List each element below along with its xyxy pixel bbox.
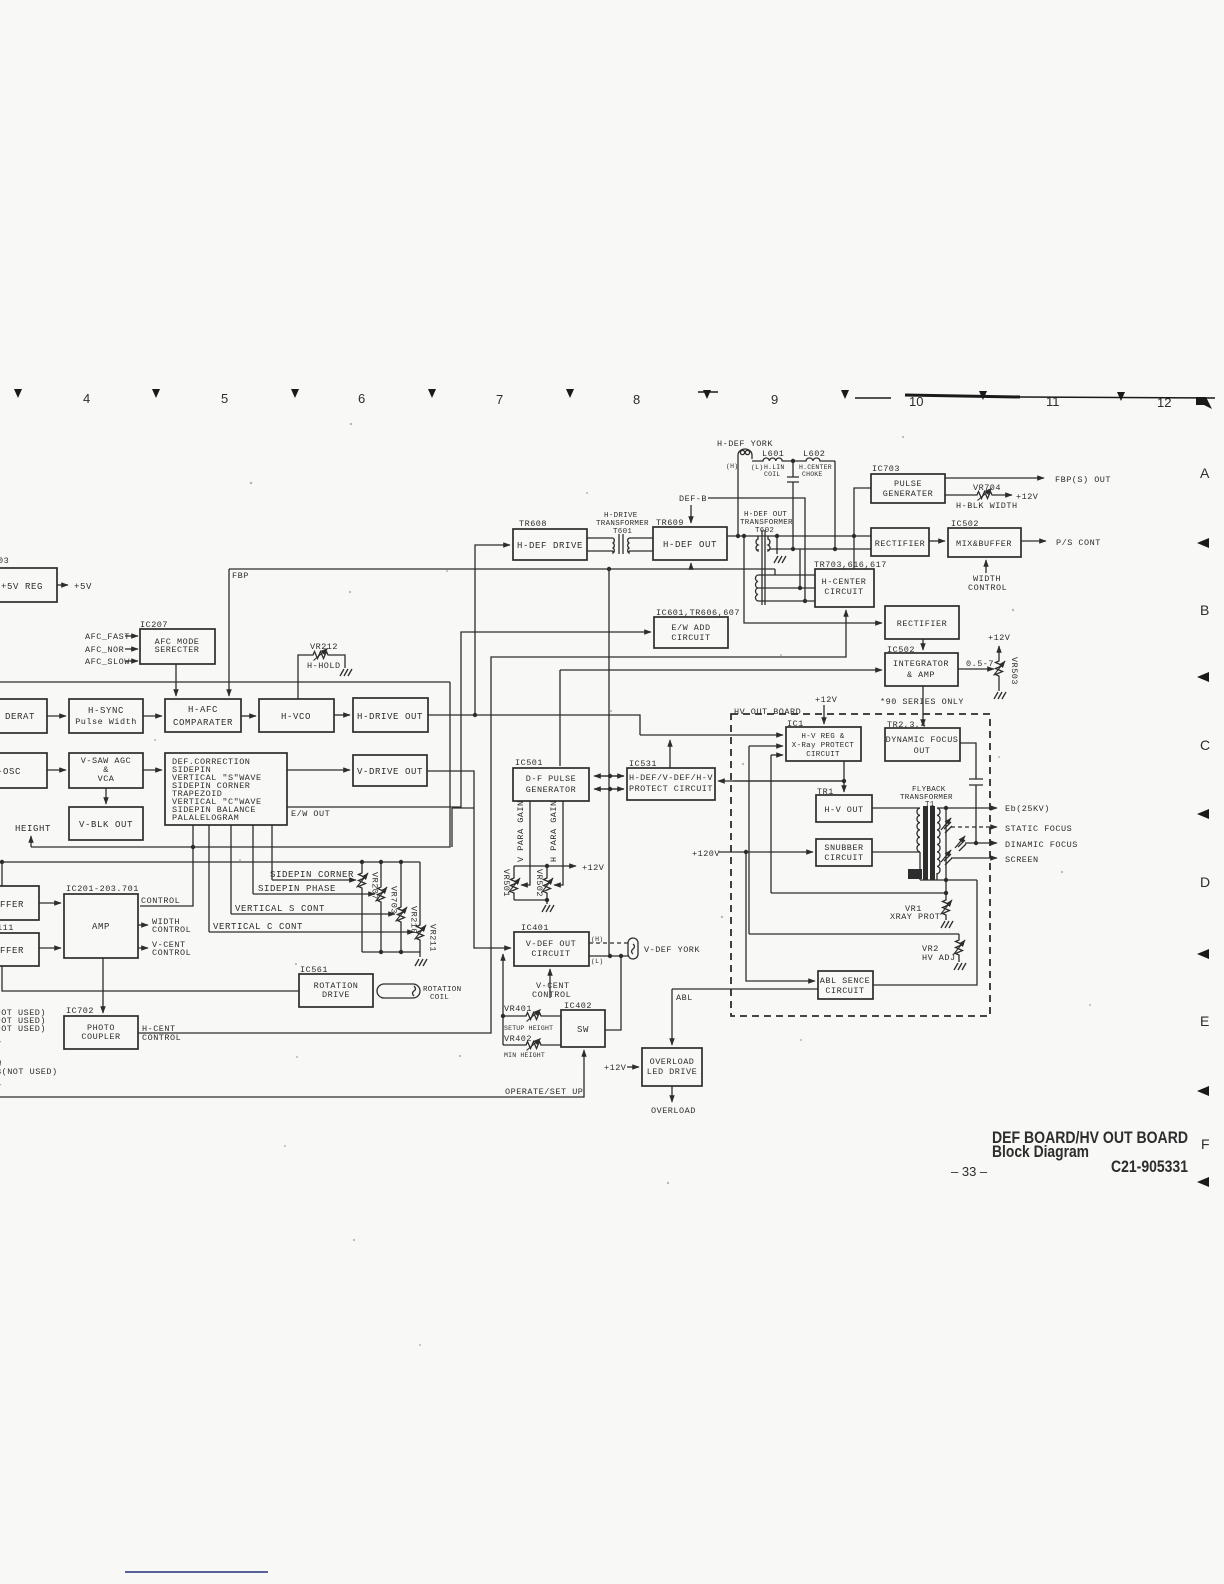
IC402 SW box	[561, 1001, 605, 1047]
box V-BLK OUT	[69, 807, 143, 840]
svg-text:H-V REG &: H-V REG &	[801, 733, 844, 741]
svg-text:VR704: VR704	[973, 483, 1001, 493]
node *90 SERIES ONLY	[880, 697, 964, 707]
node (H) output	[589, 936, 628, 943]
svg-text:Eb(25KV): Eb(25KV)	[1005, 804, 1050, 814]
svg-text:VERTICAL S CONT: VERTICAL S CONT	[235, 904, 325, 914]
svg-text:– 33 –: – 33 –	[951, 1164, 988, 1179]
node CONTROL at AMP output	[141, 896, 180, 906]
box RECTIFIER lower	[885, 606, 959, 639]
wire H-VCO to H-DRIVE OUT	[334, 714, 350, 716]
svg-text:TRANSFORMER: TRANSFORMER	[740, 519, 793, 527]
svg-text:V-DEF YORK: V-DEF YORK	[644, 945, 700, 955]
wire BUFFER1 to AMP	[39, 902, 61, 904]
wire H-DEF OUT to rectifier line A y536	[727, 534, 871, 538]
inductor rotation coil	[377, 984, 461, 1002]
svg-text:XRAY PROT: XRAY PROT	[890, 912, 940, 922]
IC201-203.701 AMP box	[64, 884, 139, 958]
svg-text:ABL: ABL	[676, 993, 693, 1003]
svg-text:H-DEF/V-DEF/H-V: H-DEF/V-DEF/H-V	[629, 773, 713, 783]
ground below VR1	[941, 921, 953, 928]
node WIDTH CONTROL into mix&buffer	[968, 560, 1007, 593]
svg-text:H-BLK WIDTH: H-BLK WIDTH	[956, 501, 1018, 511]
TR703,616,617 H-CENTER CIRCUIT box	[814, 560, 887, 607]
IC1 H-V REG & X-Ray PROTECT box	[786, 719, 861, 761]
svg-text:AMP: AMP	[92, 922, 110, 932]
wire top rail bus y862 to pot rail	[0, 860, 420, 886]
wire DEF drop to SIDEPIN CORNER	[271, 825, 273, 880]
svg-text:+5V: +5V	[74, 582, 92, 592]
node OVERLOAD output	[651, 1086, 696, 1116]
node +12V into overload	[604, 1063, 639, 1073]
svg-text:PULSE: PULSE	[894, 479, 922, 489]
svg-text:C: C	[1200, 737, 1210, 753]
node 0.5-7 output to VR503	[958, 659, 994, 669]
wire +5V output	[57, 582, 92, 592]
svg-text:ROTATION: ROTATION	[423, 986, 461, 994]
wire E/W OUT to E/W ADD circuit	[287, 632, 651, 819]
wire hv adj sense line	[749, 933, 959, 935]
box H-DRIVE OUT	[353, 698, 428, 732]
wire V-DRIVE OUT to V-DEF OUT circuit	[427, 771, 511, 948]
svg-text:V-BLK OUT: V-BLK OUT	[79, 820, 133, 830]
svg-text:B(NOT USED): B(NOT USED)	[0, 1067, 58, 1077]
wire DEF drop to AMP control net	[140, 825, 195, 906]
resistor static focus tap	[941, 818, 952, 833]
svg-text:P/S CONT: P/S CONT	[1056, 538, 1101, 548]
svg-text:FLYBACK: FLYBACK	[912, 786, 946, 794]
svg-text:CONTROL: CONTROL	[152, 948, 191, 958]
node (NOT USED) stubs at left	[0, 1008, 58, 1093]
wire H-SYNC to H-AFC	[143, 715, 162, 717]
svg-text:+12V: +12V	[582, 863, 605, 873]
svg-text:H-AFC: H-AFC	[188, 705, 218, 715]
svg-text:CHOKE: CHOKE	[802, 471, 823, 478]
svg-text:5: 5	[221, 391, 228, 406]
svg-text:SW: SW	[577, 1025, 589, 1035]
wire V-SAW down to V-BLK OUT	[105, 788, 107, 804]
svg-text:HV OUT BOARD: HV OUT BOARD	[734, 707, 801, 717]
svg-text:IC501: IC501	[515, 758, 543, 768]
svg-text:COMPARATER: COMPARATER	[173, 718, 233, 728]
svg-text:03: 03	[0, 556, 9, 566]
svg-text:E: E	[1200, 1013, 1209, 1029]
svg-text:SCREEN: SCREEN	[1005, 855, 1039, 865]
svg-text:DRIVE: DRIVE	[322, 990, 350, 1000]
IC502 MIX&BUFFER box	[948, 519, 1021, 557]
node AFC_NOR	[85, 645, 138, 655]
ground below VR501/VR502	[542, 905, 554, 912]
ground near T602	[774, 556, 786, 563]
wire rectifier2 to integrator	[922, 639, 924, 650]
svg-text:CIRCUIT: CIRCUIT	[531, 949, 570, 959]
svg-text:H.LIN: H.LIN	[764, 464, 785, 471]
svg-text:VERTICAL C CONT: VERTICAL C CONT	[213, 922, 303, 932]
svg-text:H-CENTER: H-CENTER	[822, 577, 867, 587]
svg-text:VR210: VR210	[409, 906, 419, 934]
svg-text:Block Diagram: Block Diagram	[992, 1142, 1089, 1161]
wire feedback loop right side and bottom	[31, 682, 474, 847]
wire BUFFER2 to AMP	[39, 947, 61, 949]
svg-text:HEIGHT: HEIGHT	[15, 824, 51, 834]
wire x854 vertical pulse gen feed	[854, 488, 871, 569]
box V-SAW AGC & VCA	[69, 753, 143, 788]
svg-text:RECTIFIER: RECTIFIER	[897, 619, 947, 629]
wire ABL sence to transformer return	[873, 880, 977, 985]
svg-text:(NOT USED): (NOT USED)	[0, 1024, 46, 1034]
svg-text:H-HOLD: H-HOLD	[307, 661, 341, 671]
ground below VR211	[415, 959, 427, 966]
svg-text:DYNAMIC FOCUS: DYNAMIC FOCUS	[886, 735, 959, 745]
right margin zone letters	[1200, 465, 1210, 1152]
node WIDTH CONTROL	[138, 917, 191, 935]
box RECTIFIER upper	[871, 528, 929, 556]
IC601,TR606,607 E/W ADD CIRCUIT box	[654, 608, 740, 648]
node AFC_FAST	[85, 632, 138, 642]
svg-text:VR502: VR502	[534, 869, 544, 897]
wire FBP horizontal net from H-DEF OUT transformer	[229, 563, 775, 574]
svg-text:(L): (L)	[591, 958, 603, 965]
svg-text:111: 111	[0, 923, 14, 933]
box H-SYNC Pulse Width	[69, 699, 143, 733]
svg-text:+12V: +12V	[604, 1063, 627, 1073]
wire AFC selecter to H-AFC comparater	[175, 664, 177, 696]
svg-text:FBP: FBP	[232, 571, 249, 581]
box SNUBBER CIRCUIT	[816, 839, 872, 866]
svg-text:B: B	[1200, 602, 1209, 618]
resistor VR2 HV ADJ	[922, 934, 965, 963]
IC702 PHOTO COUPLER box	[64, 1006, 138, 1049]
svg-text:OVERLOAD: OVERLOAD	[651, 1106, 696, 1116]
resistor VR207	[357, 862, 380, 952]
svg-text:BUFFER: BUFFER	[0, 946, 24, 956]
svg-text:OVERLOAD: OVERLOAD	[650, 1057, 695, 1067]
svg-text:A: A	[1200, 465, 1210, 481]
wire HV REG sense inputs left	[749, 746, 783, 934]
svg-text:H-DEF OUT: H-DEF OUT	[663, 540, 717, 550]
svg-text:HV ADJ: HV ADJ	[922, 953, 956, 963]
wire rectifier to mix&buffer	[929, 540, 945, 542]
svg-text:*90 SERIES ONLY: *90 SERIES ONLY	[880, 697, 964, 707]
svg-text:TRANSFORMER: TRANSFORMER	[596, 520, 649, 528]
svg-text:11: 11	[1046, 394, 1060, 409]
svg-text:VR211: VR211	[428, 924, 438, 952]
transformer T1 FLYBACK	[872, 786, 953, 880]
svg-text:MIN HEIGHT: MIN HEIGHT	[504, 1052, 545, 1059]
wire DEF drop to VERTICAL C CONT	[208, 825, 210, 932]
svg-text:ABL SENCE: ABL SENCE	[820, 976, 870, 986]
svg-text:COUPLER: COUPLER	[81, 1032, 120, 1042]
svg-text:VR501: VR501	[501, 869, 511, 897]
svg-text:COIL: COIL	[764, 471, 780, 478]
svg-text:T: T	[0, 1083, 2, 1093]
wire pot bottom rail	[362, 950, 420, 957]
svg-text:+12V: +12V	[1016, 492, 1039, 502]
transformer T602	[740, 511, 793, 605]
wire D-F pulse gen output to integrator	[560, 670, 882, 766]
box V-OSC (clipped at left)	[0, 753, 47, 788]
inductor L601 H.LIN COIL	[752, 449, 793, 478]
resistor screen tap	[941, 850, 952, 865]
wire IC531 to D-F pulse gen lower	[594, 787, 624, 791]
svg-text:GENERATOR: GENERATOR	[526, 785, 576, 795]
svg-text:CONTROL: CONTROL	[142, 1033, 181, 1043]
resistor VR211	[415, 862, 438, 952]
capacitor at L601/L602 junction	[787, 459, 799, 551]
node FBP(S) OUT	[945, 475, 1111, 485]
svg-text:H-DEF YORK: H-DEF YORK	[717, 439, 773, 449]
svg-text:(H): (H)	[726, 463, 738, 470]
svg-text:0.5-7: 0.5-7	[966, 659, 994, 669]
node VERTICAL S CONT	[231, 904, 395, 914]
svg-text:LED DRIVE: LED DRIVE	[647, 1067, 697, 1077]
svg-text:VR503: VR503	[1009, 657, 1019, 685]
IC531 PROTECT CIRCUIT box	[627, 759, 715, 800]
svg-text:& AMP: & AMP	[907, 670, 935, 680]
svg-text:+12V: +12V	[815, 695, 838, 705]
ground below VR503	[994, 692, 1006, 699]
svg-text:CONTROL: CONTROL	[532, 990, 571, 1000]
svg-text:V PARA GAIN: V PARA GAIN	[516, 800, 526, 862]
svg-text:Pulse Width: Pulse Width	[75, 717, 137, 727]
wire line B y549 transformer secondary to rectifier	[770, 548, 871, 550]
ruler row at top	[14, 389, 1215, 410]
wire integrator to dynamic focus out	[922, 686, 924, 726]
svg-text:OUT: OUT	[914, 746, 931, 756]
wire horizontal bus y682	[0, 681, 450, 683]
IC207 AFC MODE SELECTER	[140, 620, 215, 664]
HV OUT BOARD dashed boundary	[731, 707, 990, 1016]
svg-text:CONTROL: CONTROL	[968, 583, 1007, 593]
wire OPERATE/SET UP	[0, 1050, 584, 1097]
svg-text:V-OSC: V-OSC	[0, 767, 21, 777]
node DINAMIC FOCUS	[965, 840, 1078, 850]
svg-text:DEF-B: DEF-B	[679, 494, 707, 504]
node V-CENT CONTROL	[138, 940, 191, 958]
wire xray sense line	[771, 891, 948, 895]
TR608 H-DEF DRIVE box	[513, 519, 587, 560]
svg-text:OPERATE/SET UP: OPERATE/SET UP	[505, 1087, 583, 1097]
svg-text:MIX&BUFFER: MIX&BUFFER	[956, 539, 1012, 549]
svg-text:BUFFER: BUFFER	[0, 900, 24, 910]
wire H pulse vertical x609	[608, 569, 610, 956]
resistor VR703	[376, 862, 399, 952]
svg-text:E/W OUT: E/W OUT	[291, 809, 330, 819]
wire +120V down to ABL sence	[746, 852, 815, 981]
IC561 ROTATION DRIVE box	[299, 965, 373, 1007]
box OVERLOAD LED DRIVE	[642, 1048, 702, 1086]
svg-text:+120V: +120V	[692, 849, 720, 859]
right margin arrows	[1197, 538, 1209, 1187]
box BUFFER upper (clipped)	[0, 886, 39, 920]
svg-text:F: F	[1201, 1136, 1210, 1152]
node P/S CONT	[1021, 538, 1101, 548]
resistor VR501	[501, 866, 520, 900]
node ABL	[672, 989, 818, 1045]
node +120V	[692, 849, 813, 859]
node H-CENT CONTROL	[142, 1024, 181, 1043]
inductor L602 H.CENTER CHOKE	[793, 449, 835, 478]
TR1 H-V OUT box	[816, 787, 872, 822]
wire SW to V-DEF yoke return	[605, 956, 621, 1030]
wire T602 lower winding to H-CENTER circuit	[758, 549, 815, 603]
svg-text:DERAT: DERAT	[5, 712, 35, 722]
svg-text:H PARA GAIN: H PARA GAIN	[549, 800, 559, 862]
box V-DRIVE OUT	[353, 755, 427, 786]
svg-text:8: 8	[633, 392, 640, 407]
node (L) output	[589, 954, 628, 965]
svg-text:C21-905331: C21-905331	[1111, 1158, 1188, 1176]
node DEF-B	[679, 494, 805, 601]
wire HV REG sense into IC531 right	[718, 780, 844, 782]
box H-VCO	[259, 699, 334, 732]
node 111	[0, 923, 14, 933]
svg-text:CONTROL: CONTROL	[141, 896, 180, 906]
svg-text:H.CENTER: H.CENTER	[799, 464, 832, 471]
wire buffer bottom to rotation drive input	[2, 966, 299, 991]
svg-text:(H): (H)	[591, 936, 603, 943]
wire DEF drop to VERTICAL S CONT	[230, 825, 232, 914]
svg-text:AFC_FAST: AFC_FAST	[85, 632, 130, 642]
box ABL SENCE CIRCUIT	[818, 971, 873, 999]
svg-text:L602: L602	[803, 449, 825, 459]
svg-text:H-VCO: H-VCO	[281, 712, 311, 722]
IC401 V-DEF OUT CIRCUIT box	[514, 923, 589, 966]
inductor V-DEF YORK	[628, 938, 700, 959]
node Eb(25KV)	[937, 804, 1050, 814]
svg-text:H-DRIVE: H-DRIVE	[604, 512, 638, 520]
resistor VR212 H-HOLD	[298, 642, 345, 699]
resistor VR401 SETUP HEIGHT	[503, 1004, 561, 1032]
svg-text:SETUP HEIGHT: SETUP HEIGHT	[504, 1025, 553, 1032]
svg-text:+5V REG: +5V REG	[1, 582, 43, 592]
resistor VR704 H.BLK WIDTH	[945, 483, 1039, 511]
svg-text:SIDEPIN PHASE: SIDEPIN PHASE	[258, 884, 336, 894]
svg-text:+12V: +12V	[988, 633, 1011, 643]
node SIDEPIN PHASE	[253, 884, 375, 894]
svg-text:PALALELOGRAM: PALALELOGRAM	[172, 813, 239, 823]
transformer T601	[587, 512, 653, 554]
svg-text:H-DRIVE OUT: H-DRIVE OUT	[357, 712, 423, 722]
ground below VR2	[954, 963, 966, 970]
wire AMP to PHOTO COUPLER	[102, 958, 104, 1013]
svg-text:T: T	[0, 1040, 2, 1050]
wire H-DRIVE OUT net to H-DEF DRIVE and V-DEF	[428, 545, 640, 735]
node SCREEN	[951, 855, 1039, 865]
wire pulse tap down to rectifier2	[744, 536, 882, 623]
svg-text:IC703: IC703	[872, 464, 900, 474]
wire V-SAW to DEF.CORRECTION	[143, 769, 162, 771]
bottom margin blue rule	[125, 1571, 268, 1573]
svg-text:SNUBBER: SNUBBER	[824, 843, 863, 853]
svg-text:H-DEF DRIVE: H-DEF DRIVE	[517, 541, 583, 551]
svg-text:AFC_NOR: AFC_NOR	[85, 645, 124, 655]
IC501 D-F PULSE GENERATOR box	[513, 758, 589, 801]
resistor VR1 XRAY PROT	[890, 893, 952, 922]
svg-text:X-Ray PROTECT: X-Ray PROTECT	[792, 742, 855, 750]
svg-text:CIRCUIT: CIRCUIT	[824, 853, 863, 863]
wire FBP line down to H-AFC comparater	[229, 569, 249, 696]
svg-text:6: 6	[358, 391, 365, 406]
resistor VR503	[988, 633, 1019, 691]
node +12V into HV REG	[815, 695, 838, 724]
svg-text:4: 4	[83, 391, 90, 406]
svg-text:V-DRIVE OUT: V-DRIVE OUT	[357, 767, 423, 777]
wire DEF drop to SIDEPIN PHASE	[252, 825, 254, 894]
wire secondary tap rail	[945, 808, 947, 893]
svg-text:D: D	[1200, 874, 1210, 890]
svg-text:INTEGRATOR: INTEGRATOR	[893, 659, 949, 669]
svg-text:(L): (L)	[751, 464, 763, 471]
node VERTICAL C CONT	[209, 922, 414, 932]
svg-text:PROTECT CIRCUIT: PROTECT CIRCUIT	[629, 784, 713, 794]
resistor VR502	[534, 866, 553, 900]
node H-DEF YORK	[717, 439, 773, 471]
node HEIGHT	[15, 824, 51, 847]
svg-text:IC201-203.701: IC201-203.701	[66, 884, 139, 894]
box DEF.CORRECTION list	[165, 753, 287, 825]
svg-text:AFC_SLOW: AFC_SLOW	[85, 657, 130, 667]
svg-text:SERECTER: SERECTER	[155, 645, 200, 655]
ground below VR212	[340, 669, 352, 676]
resistor VR402 MIN HEIGHT	[503, 1034, 561, 1059]
node AFC_SLOW	[85, 657, 138, 667]
capacitor dynamic focus coupling	[960, 743, 983, 843]
node H PARA GAIN	[549, 800, 563, 885]
wire DERAT to H-SYNC	[47, 715, 66, 717]
svg-text:V-DEF OUT: V-DEF OUT	[526, 939, 576, 949]
svg-text:VR207: VR207	[370, 872, 380, 900]
svg-text:GENERATER: GENERATER	[883, 489, 933, 499]
svg-text:RECTIFIER: RECTIFIER	[875, 539, 925, 549]
wire VR rails and +12V	[514, 863, 605, 904]
svg-text:D-F PULSE: D-F PULSE	[526, 774, 576, 784]
wire V-OSC to V-SAW	[47, 769, 66, 771]
wire yoke left leg down to H-DEF OUT output line	[737, 462, 739, 536]
svg-text:CIRCUIT: CIRCUIT	[825, 986, 864, 996]
node V-CENT CONTROL under V-DEF	[532, 969, 571, 1000]
svg-text:VR212: VR212	[310, 642, 338, 652]
wire VR401/VR402 riser	[501, 954, 505, 1045]
box BUFFER lower (clipped)	[0, 933, 39, 966]
IC502 INTEGRATOR & AMP box	[885, 645, 958, 686]
wire L602 right leg down	[833, 461, 837, 551]
svg-text:9: 9	[771, 392, 778, 407]
wire DEF.CORRECTION to V-DRIVE OUT	[287, 769, 350, 771]
svg-text:H-SYNC: H-SYNC	[88, 706, 124, 716]
svg-text:VR703: VR703	[389, 886, 399, 914]
svg-text:CONTROL: CONTROL	[152, 925, 191, 935]
svg-text:CIRCUIT: CIRCUIT	[806, 751, 840, 759]
wire H-AFC to H-VCO	[241, 715, 256, 717]
svg-text:VCA: VCA	[98, 774, 115, 784]
svg-text:COIL: COIL	[430, 994, 449, 1002]
svg-text:7: 7	[496, 392, 503, 407]
wire HV REG output down to H-V OUT	[733, 761, 846, 792]
TR609 H-DEF OUT box	[653, 518, 727, 560]
svg-text:IC702: IC702	[66, 1006, 94, 1016]
wire transformer bottom rail	[920, 878, 977, 882]
svg-text:TR608: TR608	[519, 519, 547, 529]
wire H-CENT control to H-CENTER circuit	[138, 610, 846, 1033]
wire IC531 to D-F pulse gen upper	[594, 774, 624, 778]
wire IC531 top to HV REG protect bus	[640, 735, 783, 768]
svg-text:FBP(S) OUT: FBP(S) OUT	[1055, 475, 1111, 485]
svg-text:H-V OUT: H-V OUT	[824, 805, 863, 815]
svg-text:STATIC FOCUS: STATIC FOCUS	[1005, 824, 1072, 834]
resistor VR210	[396, 862, 419, 952]
svg-text:SIDEPIN CORNER: SIDEPIN CORNER	[270, 870, 354, 880]
